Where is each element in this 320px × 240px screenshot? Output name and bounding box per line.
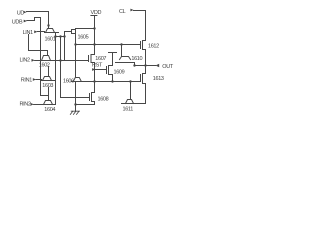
capacitor plate 1607-1609	[109, 53, 117, 66]
wire LIN1 to 1601	[37, 32, 44, 33]
svg-text:1607: 1607	[95, 56, 106, 62]
node OUT wire	[135, 65, 156, 67]
wire 1605 drain down to 1606	[75, 45, 77, 78]
wire 1610 to OUT node	[134, 63, 136, 66]
wire UDB down to jog	[27, 18, 41, 51]
wire 1603 to 1604 gate	[48, 88, 50, 96]
svg-text:1604: 1604	[44, 107, 55, 113]
junction dot bus-2	[59, 35, 61, 37]
transistor 1611	[122, 82, 146, 113]
node RIN2 input terminal	[20, 102, 34, 108]
wire jog to 1602 gate	[29, 35, 48, 56]
transistor 1612	[141, 41, 160, 66]
junction dot VDD-1605	[93, 27, 95, 29]
node UDB input terminal	[12, 19, 27, 25]
svg-text:1608: 1608	[98, 97, 109, 103]
transistor 1603	[41, 77, 56, 90]
transistor 1607	[89, 55, 107, 82]
junction dot bus-3	[63, 35, 65, 37]
svg-text:1613: 1613	[153, 76, 164, 82]
wire long vertical to 1604 gate	[41, 51, 49, 101]
transistor 1608	[90, 82, 109, 105]
junction dot bus81-1609	[111, 80, 113, 82]
svg-text:1609: 1609	[114, 69, 125, 75]
wire 1601 output bus	[56, 33, 65, 37]
junction dot UD-1601	[47, 24, 49, 26]
wire LIN2 to 1602	[35, 60, 41, 62]
svg-text:1605: 1605	[78, 34, 89, 40]
node RST input terminal	[92, 62, 103, 71]
svg-text:RIN1: RIN1	[21, 77, 32, 83]
svg-text:1610: 1610	[131, 56, 142, 62]
junction dot bus45-VDD	[93, 43, 95, 45]
wire 1602 to 1603 gate	[48, 67, 50, 77]
transistor 1604	[43, 101, 56, 114]
svg-text:1601: 1601	[45, 37, 56, 43]
wire column 1605 gate to node	[65, 32, 72, 61]
junction dot bus81-1607	[93, 80, 95, 82]
junction dot node-wire60	[59, 59, 61, 61]
svg-text:LIN2: LIN2	[20, 58, 31, 64]
node VDD power terminal	[91, 10, 102, 16]
wire 1606 lower bus to 1613 gate	[72, 81, 141, 83]
svg-text:UD: UD	[17, 10, 25, 16]
wire RIN2 to 1604	[34, 104, 43, 106]
wire RIN1 to 1603	[36, 80, 42, 81]
junction dot bus45-1605	[74, 43, 76, 45]
junction dot OUT	[144, 64, 146, 66]
node OUT output terminal	[155, 64, 173, 70]
junction dot bus81-1611	[129, 80, 131, 82]
node UD input terminal	[17, 10, 27, 16]
wire UD to 1601 gate	[27, 12, 49, 29]
wire column to 1608 gate	[61, 37, 90, 98]
node RIN1 input terminal	[21, 77, 36, 83]
node CL input terminal	[119, 9, 134, 15]
wire RST to 1609 gate	[95, 69, 106, 71]
junction dot bus45-1610	[120, 43, 122, 45]
transistor 1605	[72, 29, 95, 45]
transistor 1606	[63, 78, 81, 85]
junction dot bus-1	[54, 35, 56, 37]
wire CL to 1612 drain	[134, 11, 146, 41]
wire column to 1604 drain	[55, 37, 57, 105]
wire 1606 source to ground	[75, 82, 77, 112]
node LIN1 input terminal	[23, 30, 38, 36]
wire node bus at y45	[76, 44, 141, 46]
node LIN2 input terminal	[20, 58, 35, 64]
svg-text:CL: CL	[119, 9, 126, 15]
svg-text:LIN1: LIN1	[23, 30, 34, 36]
svg-text:1603: 1603	[42, 83, 53, 89]
svg-text:RIN2: RIN2	[20, 102, 31, 108]
svg-text:RST: RST	[92, 62, 103, 68]
svg-text:UDB: UDB	[12, 19, 23, 25]
svg-text:OUT: OUT	[162, 64, 174, 70]
transistor 1613	[141, 66, 164, 104]
junction dot ground wire	[74, 103, 76, 105]
svg-text:1611: 1611	[123, 106, 134, 112]
transistor 1602 and node wire to 1607 gate	[39, 56, 89, 69]
transistor 1609	[107, 66, 125, 82]
transistor 1601	[45, 29, 59, 43]
svg-text:1612: 1612	[148, 43, 159, 49]
capacitor 1610	[116, 45, 143, 63]
junction dot 1610-OUT	[133, 64, 135, 66]
ground	[70, 111, 79, 114]
wire VDD rail down through bus45 to 1607	[94, 16, 96, 55]
wire ground to 1608 source	[76, 104, 95, 106]
